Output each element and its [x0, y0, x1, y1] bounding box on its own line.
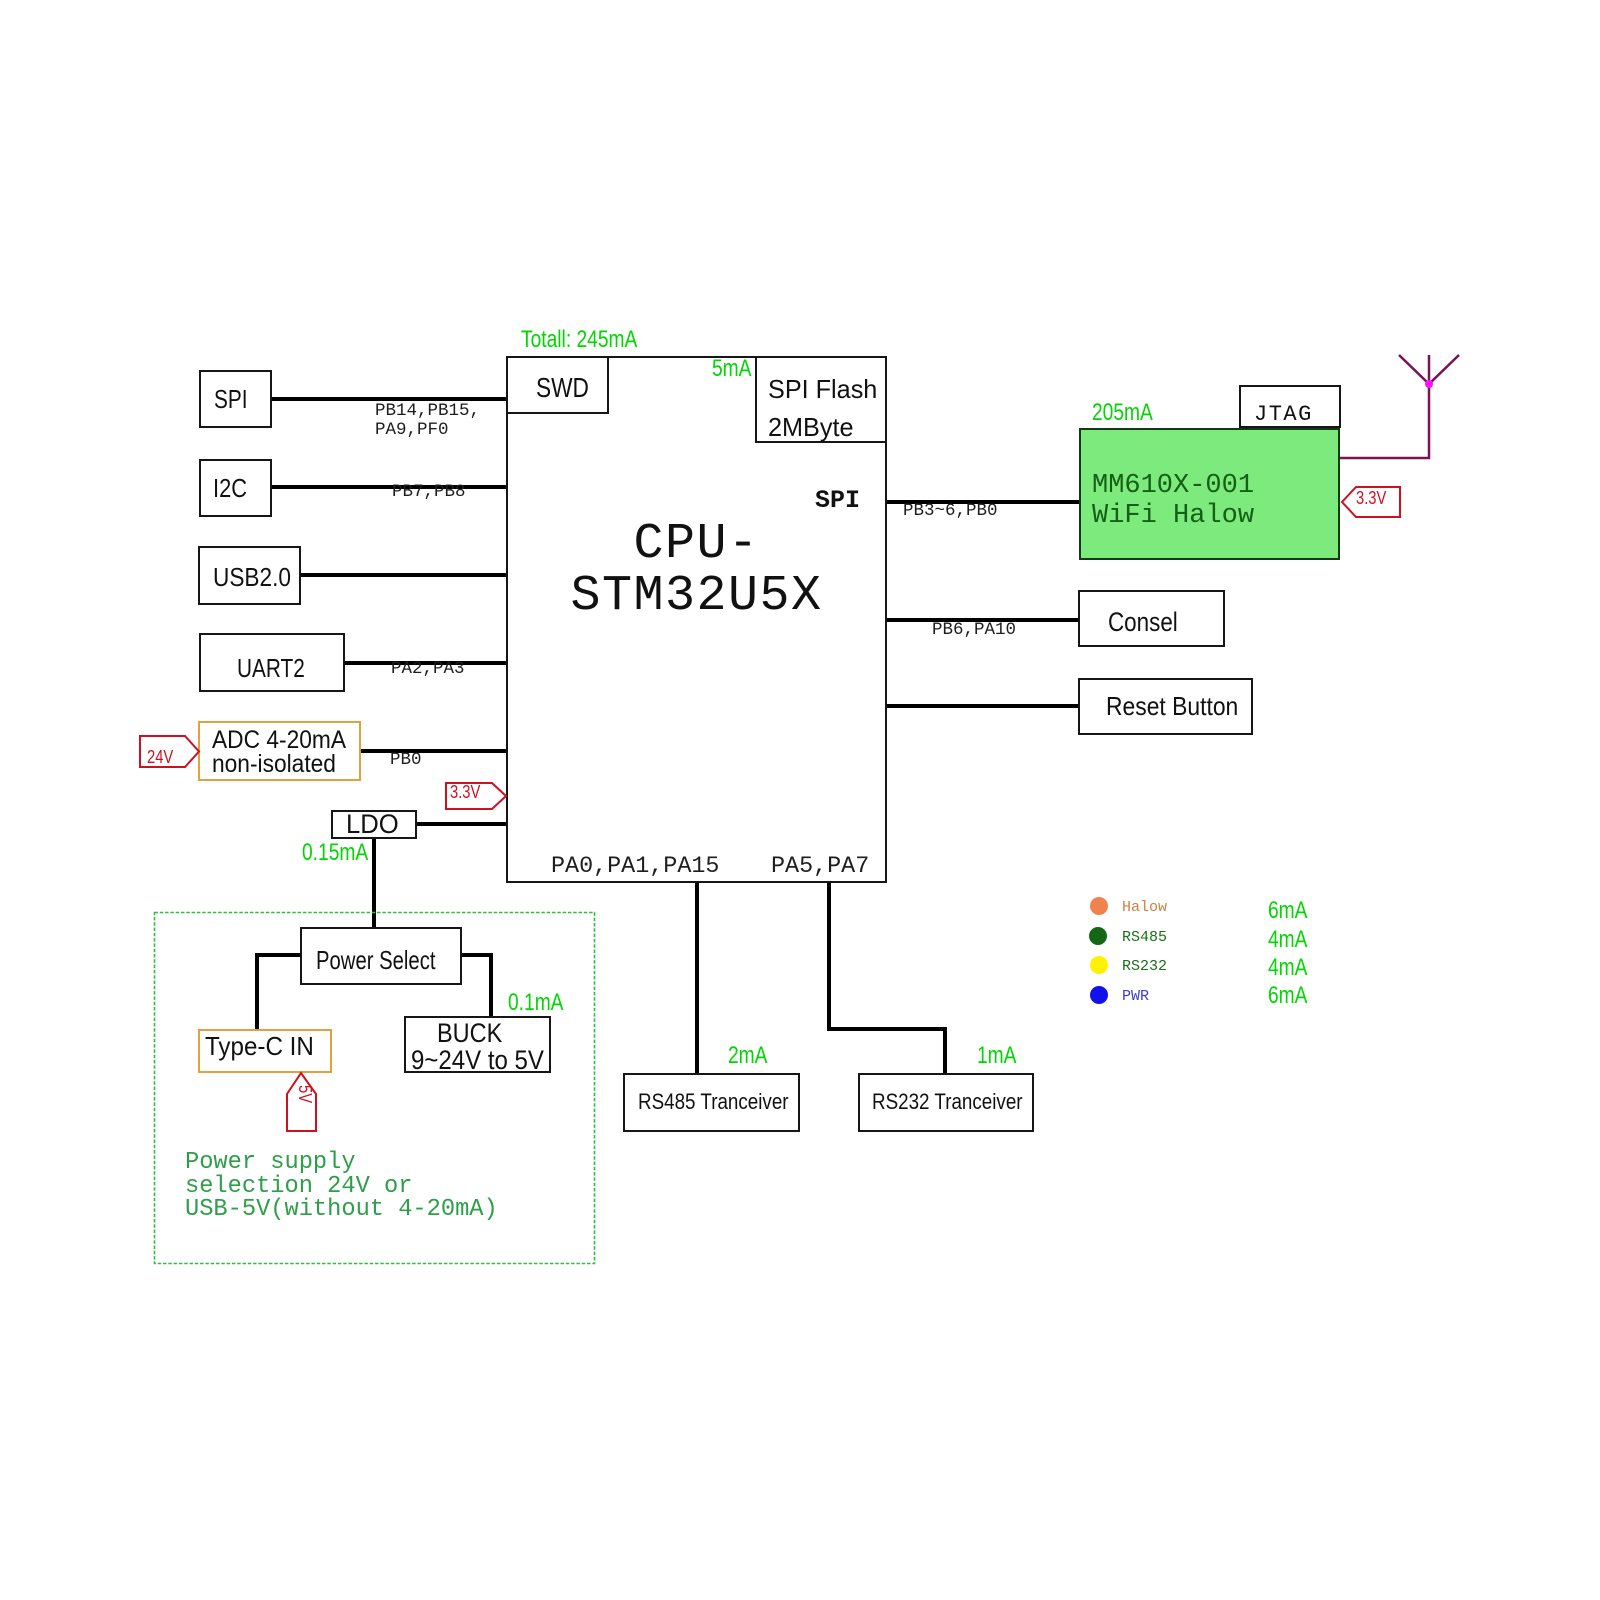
wire USB2.0 to CPU [301, 573, 506, 577]
dashed power region [153, 911, 596, 1265]
power flag 3.3V at LDO [444, 780, 509, 812]
legend label RS232 [1122, 959, 1167, 974]
pin label PA2,PA3 [391, 660, 465, 679]
wire Power Select left vertical to Type-C IN [255, 953, 259, 1029]
block RS232 Tranceiver [858, 1073, 1034, 1132]
block Reset Button [1078, 678, 1253, 735]
pin label PA0,PA1,PA15 [551, 856, 719, 879]
note power supply selection [185, 1151, 498, 1222]
label SPI bold [815, 488, 860, 513]
wire Power Select left horizontal [255, 953, 302, 957]
legend label RS485 [1122, 930, 1167, 945]
node 2mA [728, 1044, 777, 1068]
block USB2.0 [198, 546, 301, 605]
antenna arm right [1429, 355, 1459, 384]
block MM610X-001 WiFi Halow [1079, 428, 1340, 560]
node 0.15mA [302, 841, 385, 865]
legend dot Halow [1090, 897, 1108, 915]
wire CPU to RS485 [695, 882, 699, 1073]
legend value 6mA [1268, 899, 1317, 923]
wire CPU to RS232 horizontal [827, 1027, 947, 1031]
node 1mA [977, 1044, 1026, 1068]
pin label PB6,PA10 [932, 621, 1016, 640]
block SWD [506, 356, 609, 414]
block LDO [331, 810, 417, 839]
block Power Select [300, 927, 462, 985]
node Totall: 245mA [521, 328, 666, 352]
wire Power Select right horizontal [460, 953, 493, 957]
pin label PB7,PB8 [392, 483, 466, 502]
power flag 3.3V at MM610X [1340, 485, 1402, 519]
power flag 5V [285, 1070, 319, 1134]
pin label PA5,PA7 [771, 856, 869, 879]
wire I2C to CPU [272, 485, 506, 489]
pin label PB0 [390, 751, 422, 770]
pin label PB14,PB15,PA9,PF0 [375, 402, 480, 439]
power flag 24V [138, 734, 202, 770]
wire CPU SPI to MM610X [886, 500, 1079, 504]
legend value 6mA [1268, 984, 1317, 1008]
label STM32U5X [506, 572, 887, 622]
node 205mA [1092, 401, 1168, 425]
block SPI Flash 2MByte [755, 356, 887, 443]
block Consel [1078, 590, 1225, 647]
wire Power Select right vertical to BUCK [489, 953, 493, 1016]
block JTAG [1239, 385, 1341, 428]
block Type-C IN [198, 1029, 332, 1073]
legend dot RS232 [1090, 956, 1108, 974]
wire ADC to CPU [361, 749, 506, 753]
legend value 4mA [1268, 956, 1317, 980]
antenna feed wire [1340, 355, 1429, 458]
wire UART2 to CPU [345, 661, 506, 665]
antenna ANT1 [1335, 340, 1505, 470]
label CPU- [506, 520, 887, 570]
legend label PWR [1122, 989, 1149, 1004]
wire CPU to Consel [886, 618, 1078, 622]
block BUCK 9~24V to 5V [404, 1016, 551, 1073]
wire SPI to CPU [272, 397, 506, 401]
wire RS232 drop [943, 1027, 947, 1073]
block RS485 Tranceiver [623, 1073, 800, 1132]
antenna node dot [1425, 380, 1433, 388]
block CPU STM32U5X [506, 356, 887, 883]
pin label PB3~6,PB0 [903, 502, 998, 521]
legend label Halow [1122, 900, 1167, 915]
legend dot RS485 [1089, 927, 1107, 945]
wire CPU to Reset Button [886, 704, 1078, 708]
legend value 4mA [1268, 928, 1317, 952]
antenna arm left [1399, 355, 1429, 384]
wire CPU to RS232 vertical [827, 882, 831, 1031]
wire LDO to CPU [417, 822, 506, 826]
legend dot PWR [1090, 986, 1108, 1004]
block SPI [199, 370, 272, 428]
wire LDO down to Power Select [372, 839, 376, 928]
block I2C [199, 459, 272, 517]
node 0.1mA [508, 991, 577, 1015]
node 5mA [712, 357, 761, 381]
block ADC 4-20mA non-isolated [198, 721, 361, 781]
label MM610X-001 WiFi Halow [1092, 472, 1254, 531]
block UART2 [199, 633, 345, 692]
